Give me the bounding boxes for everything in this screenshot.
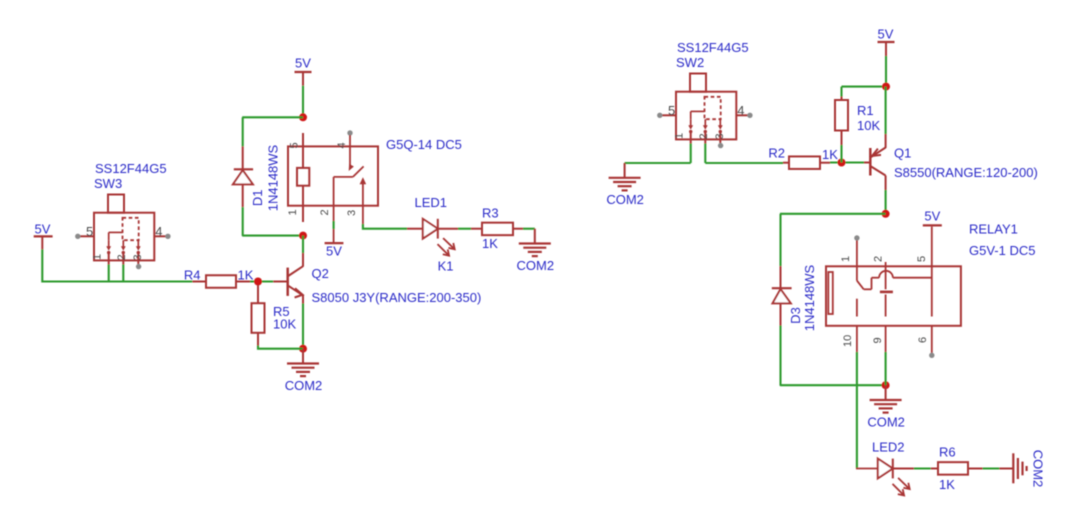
wire bbox=[779, 214, 781, 266]
wire bbox=[302, 86, 304, 118]
wire bbox=[983, 467, 1000, 469]
LED LED1 bbox=[407, 219, 455, 256]
svg-text:K1: K1 bbox=[438, 258, 454, 273]
wire bbox=[523, 228, 535, 230]
node junction (R4 / R5 / Q2 base) bbox=[254, 278, 262, 286]
svg-text:R6: R6 bbox=[939, 445, 956, 460]
svg-text:5: 5 bbox=[289, 142, 301, 148]
svg-text:R2: R2 bbox=[768, 146, 785, 161]
svg-text:1N4148WS: 1N4148WS bbox=[802, 264, 817, 331]
svg-text:S8550(RANGE:120-200): S8550(RANGE:120-200) bbox=[894, 165, 1038, 180]
relay K1 pin 4 bbox=[346, 130, 354, 172]
wire bbox=[783, 162, 789, 164]
switch SW2 (SS12F44G5) bbox=[657, 74, 753, 149]
relay RELAY1 pin 10 bbox=[856, 299, 858, 352]
wire bbox=[779, 326, 781, 386]
wire bbox=[885, 190, 887, 214]
svg-text:G5V-1 DC5: G5V-1 DC5 bbox=[969, 243, 1035, 258]
svg-text:RELAY1: RELAY1 bbox=[969, 222, 1018, 237]
relay RELAY1 pin 5 bbox=[931, 227, 933, 317]
svg-text:1K: 1K bbox=[482, 236, 498, 251]
node junction (D1 / coil / Q2 collector) bbox=[299, 232, 307, 240]
svg-text:D3: D3 bbox=[788, 307, 803, 324]
relay RELAY1 pin 1 and armature bbox=[854, 235, 932, 289]
power 5V (left of SW3) bbox=[34, 222, 53, 250]
wire bbox=[242, 117, 244, 146]
wire bbox=[302, 304, 304, 349]
wire bbox=[893, 468, 914, 470]
wire bbox=[885, 56, 887, 87]
relay RELAY1 pin 6 bbox=[929, 326, 934, 358]
svg-text:5: 5 bbox=[916, 256, 928, 262]
resistor R5 bbox=[252, 285, 265, 347]
wire bbox=[242, 207, 244, 236]
svg-text:COM2: COM2 bbox=[1031, 450, 1046, 488]
svg-text:2: 2 bbox=[319, 209, 331, 215]
wire bbox=[250, 280, 274, 282]
wire (Q2 emitter pin) bbox=[302, 295, 304, 304]
resistor R2 bbox=[789, 156, 820, 169]
relay K1 body (G5Q-14 DC5) bbox=[288, 146, 378, 205]
svg-text:R3: R3 bbox=[482, 206, 499, 221]
svg-text:5V: 5V bbox=[878, 26, 894, 41]
wire bbox=[333, 221, 335, 229]
svg-text:6: 6 bbox=[917, 337, 929, 343]
svg-text:5V: 5V bbox=[924, 208, 940, 223]
wire bbox=[780, 384, 886, 386]
relay RELAY1 body (G5V-1 DC5) bbox=[826, 266, 961, 326]
wire bbox=[242, 116, 303, 118]
node junction (Q1 collector / D3 / relay pin 2) bbox=[882, 210, 890, 218]
resistor R3 bbox=[482, 223, 513, 236]
node junction (relay pin 9 / D3 / ground) bbox=[882, 381, 890, 389]
diode D1 bbox=[233, 146, 253, 207]
svg-text:1: 1 bbox=[674, 133, 686, 139]
relay K1 pin 3 bbox=[360, 177, 367, 224]
svg-text:LED2: LED2 bbox=[872, 440, 905, 455]
wire bbox=[820, 162, 830, 164]
svg-text:Q2: Q2 bbox=[312, 266, 329, 281]
wire bbox=[41, 249, 43, 282]
wire bbox=[458, 228, 471, 230]
svg-text:1: 1 bbox=[92, 254, 104, 260]
wire bbox=[780, 213, 886, 215]
svg-text:2: 2 bbox=[873, 256, 885, 262]
svg-text:5V: 5V bbox=[326, 244, 342, 259]
svg-text:S8050 J3Y(RANGE:200-350): S8050 J3Y(RANGE:200-350) bbox=[312, 290, 482, 305]
svg-text:COM2: COM2 bbox=[606, 192, 644, 207]
wire bbox=[690, 144, 692, 164]
wire bbox=[885, 352, 887, 385]
relay RELAY1 coil bbox=[828, 272, 833, 314]
wire bbox=[885, 87, 887, 134]
wire bbox=[842, 86, 887, 88]
wire bbox=[704, 144, 706, 164]
wire bbox=[42, 280, 192, 282]
transistor Q1 (PNP S8550) bbox=[870, 148, 885, 176]
wire (Q1 emitter pin) bbox=[885, 134, 887, 148]
svg-text:2: 2 bbox=[116, 254, 128, 260]
resistor R4 bbox=[192, 275, 250, 288]
svg-text:D1: D1 bbox=[250, 189, 265, 206]
ground COM2 (below RELAY1) bbox=[867, 385, 905, 429]
wire bbox=[122, 265, 124, 283]
resistor R6 bbox=[938, 462, 968, 475]
svg-text:5: 5 bbox=[668, 103, 675, 118]
wire bbox=[625, 162, 691, 164]
relay RELAY1 pin 2 bbox=[885, 262, 887, 289]
svg-text:1N4148WS: 1N4148WS bbox=[266, 144, 281, 211]
svg-text:1: 1 bbox=[287, 209, 299, 215]
wire (Q1 collector pin) bbox=[885, 176, 887, 191]
wire bbox=[931, 468, 938, 470]
svg-text:SS12F44G5: SS12F44G5 bbox=[677, 40, 749, 55]
power 5V (relay RELAY1 pin 5, inverted) bbox=[923, 208, 942, 225]
relay K1 coil bbox=[297, 133, 309, 222]
power 5V (top of right circuit) bbox=[878, 26, 895, 56]
transistor Q2 (NPN S8050) bbox=[288, 266, 303, 297]
svg-text:R1: R1 bbox=[857, 103, 874, 118]
svg-text:3: 3 bbox=[132, 254, 144, 260]
wire bbox=[830, 161, 864, 163]
svg-text:COM2: COM2 bbox=[517, 258, 555, 273]
ground COM2 (below Q2) bbox=[285, 349, 323, 393]
svg-text:1: 1 bbox=[840, 256, 852, 262]
wire bbox=[705, 162, 783, 164]
relay K1 pin 2 bbox=[333, 177, 335, 243]
wire bbox=[471, 228, 482, 230]
wire (Q1 base pin) bbox=[864, 162, 870, 164]
diode D3 bbox=[772, 266, 792, 325]
node junction (5V / D1 / relay coil) bbox=[299, 113, 307, 121]
wire bbox=[999, 468, 1013, 470]
svg-text:4: 4 bbox=[155, 224, 162, 239]
svg-text:SW2: SW2 bbox=[676, 55, 704, 70]
node junction (5V / R1 / Q1 emitter) bbox=[882, 83, 890, 91]
LED LED2 bbox=[856, 459, 910, 496]
svg-text:G5Q-14 DC5: G5Q-14 DC5 bbox=[386, 137, 462, 152]
svg-text:3: 3 bbox=[346, 210, 358, 216]
resistor R1 bbox=[835, 96, 848, 145]
relay RELAY1 contact bbox=[880, 291, 893, 294]
svg-text:SS12F44G5: SS12F44G5 bbox=[95, 161, 167, 176]
wire bbox=[914, 467, 931, 469]
svg-text:4: 4 bbox=[336, 142, 348, 148]
wire bbox=[258, 346, 303, 349]
svg-text:R4: R4 bbox=[184, 267, 201, 282]
svg-text:9: 9 bbox=[872, 337, 884, 343]
wire bbox=[438, 228, 458, 230]
relay K1 contact lever bbox=[334, 166, 364, 177]
ground COM2 (right of R6, rotated) bbox=[1013, 450, 1045, 488]
wire bbox=[856, 352, 858, 469]
switch SW3 (SS12F44G5) bbox=[75, 195, 170, 270]
svg-text:SW3: SW3 bbox=[94, 176, 122, 191]
wire (Q2 collector pin) bbox=[302, 253, 304, 267]
ground COM2 (right of R3) bbox=[517, 229, 555, 273]
svg-text:5V: 5V bbox=[35, 222, 51, 237]
wire (Q2 base pin) bbox=[273, 281, 288, 283]
wire bbox=[302, 236, 304, 253]
node junction (R2 / R1 / Q1 base) bbox=[838, 159, 846, 167]
wire bbox=[513, 228, 523, 230]
power 5V (relay K1 pin 2, inverted) bbox=[325, 243, 344, 259]
svg-text:1K: 1K bbox=[238, 267, 254, 282]
wire bbox=[363, 224, 407, 229]
power 5V (top of left circuit) bbox=[295, 56, 312, 86]
svg-text:3: 3 bbox=[714, 133, 726, 139]
svg-text:4: 4 bbox=[737, 103, 744, 118]
svg-text:1K: 1K bbox=[822, 147, 838, 162]
ground COM2 (left of SW2) bbox=[606, 163, 644, 207]
node junction (Q2 emitter / R5 / ground) bbox=[299, 345, 307, 353]
wire bbox=[840, 87, 842, 97]
svg-text:COM2: COM2 bbox=[285, 378, 323, 393]
svg-text:2: 2 bbox=[698, 133, 710, 139]
svg-text:5V: 5V bbox=[295, 56, 311, 71]
svg-text:1K: 1K bbox=[939, 477, 955, 492]
svg-text:5: 5 bbox=[86, 224, 93, 239]
wire bbox=[242, 235, 303, 237]
svg-text:10K: 10K bbox=[273, 317, 296, 332]
relay RELAY1 pin 9 bbox=[885, 295, 887, 353]
wire bbox=[840, 145, 842, 163]
svg-text:10: 10 bbox=[842, 335, 854, 347]
wire bbox=[968, 468, 983, 470]
svg-text:Q1: Q1 bbox=[894, 145, 911, 160]
svg-text:COM2: COM2 bbox=[867, 414, 905, 429]
svg-text:LED1: LED1 bbox=[415, 195, 448, 210]
svg-text:10K: 10K bbox=[857, 118, 880, 133]
wire bbox=[108, 265, 110, 283]
